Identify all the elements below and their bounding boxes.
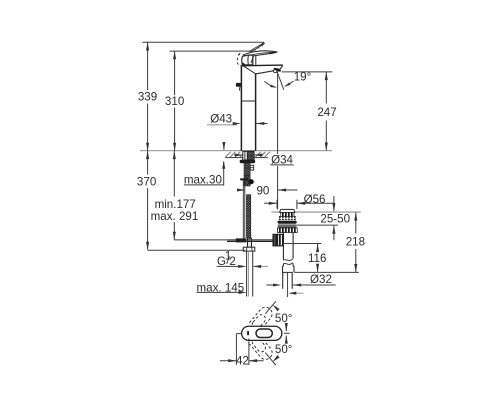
dashed handle alternate position (237, 52, 241, 65)
basin surface line (272, 211, 361, 213)
ext line 370 bottom (148, 249, 245, 251)
aerator (273, 67, 282, 72)
Ø34 shelf (270, 164, 294, 166)
svg-text:50°: 50° (275, 343, 293, 356)
svg-text:19°: 19° (294, 70, 312, 83)
hose neck (248, 238, 252, 247)
waste upper band (horizontal lines) (278, 225, 297, 228)
Ø56 arrows tails + shelf (264, 202, 335, 204)
faucet lever tip (raised end) (249, 43, 265, 53)
svg-text:90: 90 (256, 184, 269, 197)
faucet head top (241, 64, 283, 67)
ext line 116 top (283, 243, 321, 245)
pipe center line (287, 272, 289, 297)
dim line 218 (355, 213, 357, 273)
svg-text:max. 145: max. 145 (197, 281, 245, 294)
G1/2 hex nut (243, 247, 255, 251)
pop-up tee (273, 234, 283, 246)
svg-text:Ø34: Ø34 (271, 154, 293, 167)
svg-text:42: 42 (236, 354, 249, 367)
svg-text:Ø32: Ø32 (310, 273, 332, 286)
svg-text:370: 370 (137, 175, 156, 188)
spout tip edge (278, 65, 283, 71)
bottom view: dashed swung handle lower (249, 334, 275, 362)
faucet head front diagonal (243, 66, 256, 74)
Ø43 arrow tails (256, 123, 268, 125)
svg-text:116: 116 (308, 252, 326, 265)
plug knurled band (281, 213, 294, 217)
shank through deck (243, 151, 254, 160)
clip on shank (250, 165, 254, 170)
deck bottom line (225, 157, 268, 159)
dim line 116 (317, 244, 319, 272)
water stream line (277, 72, 279, 209)
svg-text:2: 2 (229, 255, 235, 268)
faucet column (240, 66, 242, 151)
dim line 25-50 arrows tails (333, 196, 335, 240)
svg-text:max.30: max.30 (184, 173, 222, 186)
ext line top 310 (170, 50, 253, 52)
bottom view: handle outline (stadium) (242, 326, 282, 340)
plug flange (279, 219, 295, 221)
19deg shelf (282, 71, 333, 73)
ext line min-max bottom (174, 239, 228, 241)
ext line 218/116 bottom (295, 271, 359, 273)
svg-text:max. 291: max. 291 (151, 210, 199, 223)
drain plug cap (280, 209, 295, 212)
Ø32 dim (267, 284, 336, 286)
pop-up rod knob (248, 179, 254, 184)
dim line 247 (325, 72, 327, 151)
max30 leader (184, 162, 224, 185)
svg-text:Ø43: Ø43 (210, 113, 232, 126)
bottom view: pull rod hole (247, 331, 249, 336)
tube lower with flare (282, 264, 285, 273)
spout underside (256, 71, 274, 74)
clevis on rod (236, 238, 246, 242)
90 dim (239, 189, 298, 191)
ext line 25-50 bottom (297, 224, 338, 226)
drain pipe (282, 272, 284, 288)
pull rod (242, 180, 244, 238)
tube break squiggle (283, 259, 293, 261)
svg-text:Ø56: Ø56 (304, 193, 326, 206)
svg-text:50°: 50° (275, 312, 293, 325)
Ø43 shelf (207, 124, 237, 126)
42 ext lines (236, 334, 249, 365)
Ø34 arrow tails (235, 154, 263, 156)
ext line top 339 (142, 41, 264, 43)
column seam (241, 100, 255, 102)
faucet handle hub (242, 55, 253, 65)
50deg leader top (265, 301, 276, 314)
19deg arc (264, 81, 275, 87)
svg-text:218: 218 (346, 236, 365, 249)
deck hatching (225, 152, 269, 157)
G1/2 leader (217, 265, 240, 267)
bottom view: lever slot (256, 329, 272, 338)
max145 leader (197, 291, 243, 293)
svg-text:247: 247 (317, 106, 336, 119)
waste body tube (282, 233, 284, 260)
waste knurled band (277, 228, 297, 233)
under-deck nut (240, 160, 256, 163)
faucet lever blade (243, 51, 276, 57)
dim line 310 / min-max (173, 51, 175, 239)
horizontal pop-up linkage rod (227, 239, 273, 241)
arrows (146, 42, 357, 363)
50deg leader bottom (265, 353, 276, 366)
19deg slant leg (277, 72, 284, 90)
plug block band (279, 216, 295, 220)
small pointer at pipe center (288, 292, 296, 295)
svg-text:310: 310 (165, 95, 184, 108)
supply tube (246, 251, 248, 296)
mini dim at stadium right (284, 323, 290, 343)
pop-up rod arm (240, 178, 248, 180)
svg-text:25-50: 25-50 (320, 212, 350, 225)
42 dim (220, 360, 264, 362)
bottom view: dashed swung handle upper (249, 305, 275, 333)
Ø56 ext lines (277, 200, 297, 209)
svg-text:339: 339 (138, 91, 157, 104)
dim line 339/370 (147, 43, 149, 250)
threaded shank lower (244, 163, 250, 186)
braided hose (246, 195, 250, 239)
side tab (236, 83, 242, 87)
deck surface line (140, 150, 332, 152)
42 stub to stadium (236, 333, 241, 335)
